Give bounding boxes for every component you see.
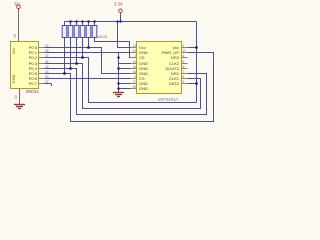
wire 3.3V bus (top rail) xyxy=(65,21,197,23)
wire U2 GND rail stem to ground xyxy=(118,89,120,93)
resistor R6 xyxy=(92,26,97,38)
no-connect tick on P0.7 stub xyxy=(51,84,53,87)
resistor R1 xyxy=(62,26,67,38)
wire U2 GND pin row8 xyxy=(119,83,137,85)
wire P0.0 from U1 to U2 row6 xyxy=(45,48,137,74)
wire resistor R3 top stub xyxy=(76,22,78,26)
svg-text:9: 9 xyxy=(183,80,185,84)
svg-text:DR2: DR2 xyxy=(171,55,180,60)
svg-text:6: 6 xyxy=(183,65,185,69)
svg-text:32: 32 xyxy=(45,80,49,84)
svg-text:12: 12 xyxy=(132,49,136,53)
wire resistor R1 top stub xyxy=(64,22,66,26)
node P0.5 pull-up junction xyxy=(63,72,66,75)
wire bus corner down right side to bottom bus xyxy=(196,22,198,103)
wire resistor R5 top stub xyxy=(88,22,90,26)
wire P0.5 wraps bottom to PWR_UP xyxy=(45,53,214,122)
wire U2 right Vcc pin to riser xyxy=(188,47,197,49)
node P0.3 pull-up junction xyxy=(75,62,78,65)
svg-text:Vcc: Vcc xyxy=(11,48,16,55)
svg-text:18: 18 xyxy=(132,85,136,89)
svg-text:13: 13 xyxy=(132,44,136,48)
svg-text:CE: CE xyxy=(139,55,145,60)
svg-text:89C51: 89C51 xyxy=(26,89,39,94)
node P0.4 pull-up junction xyxy=(69,67,72,70)
svg-text:DATA: DATA xyxy=(169,81,179,86)
resistor R3 xyxy=(74,26,79,38)
wire U2 DATA pin to riser xyxy=(188,83,197,85)
chip U1 pin stubs xyxy=(39,48,45,84)
wire bus down to U2 left Vcc pin xyxy=(118,22,137,48)
svg-text:35: 35 xyxy=(45,65,49,69)
chip U1 89C51 body xyxy=(11,42,39,89)
wire P0.1 from U1 to GND rail top xyxy=(45,52,119,54)
wire resistor R3 bottom to node P0.3 xyxy=(76,38,78,64)
power port 3.3V xyxy=(114,2,123,13)
svg-text:16: 16 xyxy=(132,70,136,74)
svg-text:38: 38 xyxy=(45,49,49,53)
svg-text:5: 5 xyxy=(183,60,185,64)
svg-text:P0.2: P0.2 xyxy=(29,55,38,60)
svg-text:15: 15 xyxy=(132,65,136,69)
wire P0.2 wraps bottom to DATA xyxy=(45,58,197,103)
node U2 Vcc right junction xyxy=(195,46,198,49)
svg-text:17: 17 xyxy=(132,80,136,84)
svg-text:3.3V: 3.3V xyxy=(114,2,123,7)
wire U2 GND rail vertical xyxy=(119,53,137,89)
wire resistor R4 bottom to node P0.2 xyxy=(82,38,84,58)
wire resistor R2 top stub xyxy=(70,22,72,26)
wire U2 GND pin row4 xyxy=(119,63,137,65)
svg-text:14: 14 xyxy=(132,60,136,64)
power port 5V xyxy=(15,2,21,9)
wire U1 GND stem to ground xyxy=(19,89,21,105)
svg-text:40: 40 xyxy=(13,34,17,38)
wire U2 GND pin row5 xyxy=(119,68,137,70)
pin numbers U2 left pins xyxy=(132,44,136,89)
svg-text:GND: GND xyxy=(139,86,148,91)
pin numbers U1 P0 pins xyxy=(45,44,49,84)
wire resistor R6 top stub xyxy=(94,22,96,26)
node U2 DATA right junction xyxy=(195,82,198,85)
svg-text:36: 36 xyxy=(45,60,49,64)
wire P0.4 wraps bottom to DR1 xyxy=(45,69,207,115)
wire resistor R5 bottom to node P0.0 xyxy=(88,38,90,48)
svg-text:1: 1 xyxy=(134,54,136,58)
svg-text:2: 2 xyxy=(134,75,136,79)
resistor R2 xyxy=(68,26,73,38)
svg-text:10K/8: 10K/8 xyxy=(97,35,107,39)
svg-text:11: 11 xyxy=(183,49,187,53)
svg-text:20: 20 xyxy=(14,95,18,99)
svg-text:7: 7 xyxy=(183,70,185,74)
junction dots on bus xyxy=(69,20,122,23)
chip U2 right pin stubs xyxy=(182,48,188,84)
wire 5V stem down to U1 Vcc xyxy=(18,9,20,42)
svg-text:4: 4 xyxy=(183,54,185,58)
svg-text:P0.7: P0.7 xyxy=(29,81,38,86)
svg-text:GND: GND xyxy=(11,74,16,83)
chip U1 pin labels P0.0-P0.7 xyxy=(29,45,38,86)
svg-text:34: 34 xyxy=(45,70,49,74)
svg-text:33: 33 xyxy=(45,75,49,79)
svg-text:39: 39 xyxy=(45,44,49,48)
svg-text:nRF2401A: nRF2401A xyxy=(158,97,178,102)
svg-text:8: 8 xyxy=(183,75,185,79)
chip U2 left pin stubs xyxy=(131,48,137,89)
wire 3.3V stem to bus xyxy=(120,13,122,22)
node P0.2 pull-up junction xyxy=(81,56,84,59)
ground symbol under U1 xyxy=(14,105,25,109)
wire P0.6 straight to CS xyxy=(45,78,137,80)
chip U2 nRF2401A body xyxy=(137,42,182,94)
resistor R4 xyxy=(80,26,85,38)
svg-text:3: 3 xyxy=(183,44,185,48)
wire resistor R2 bottom to node P0.4 xyxy=(70,38,72,69)
ground symbol under U2 GND rail xyxy=(113,93,124,97)
chip U2 right pin labels xyxy=(162,45,180,86)
wire resistor R6 overhead route to CE xyxy=(95,38,137,58)
wire U2 GND rail top stub to row2 xyxy=(119,52,137,54)
wire P0.7 stub (no connect) xyxy=(45,83,52,85)
node P0.0 pull-up junction xyxy=(87,46,90,49)
resistor R5 xyxy=(86,26,91,38)
wire resistor R1 bottom to node P0.5 xyxy=(64,38,66,74)
pin numbers U2 right pins xyxy=(183,44,187,84)
svg-text:37: 37 xyxy=(45,54,49,58)
wire P0.3 wraps bottom to CLK1 xyxy=(45,64,201,109)
wire resistor R4 top stub xyxy=(82,22,84,26)
junction dots on U2 GND rail xyxy=(117,56,120,90)
chip U2 left pin labels xyxy=(139,45,148,91)
